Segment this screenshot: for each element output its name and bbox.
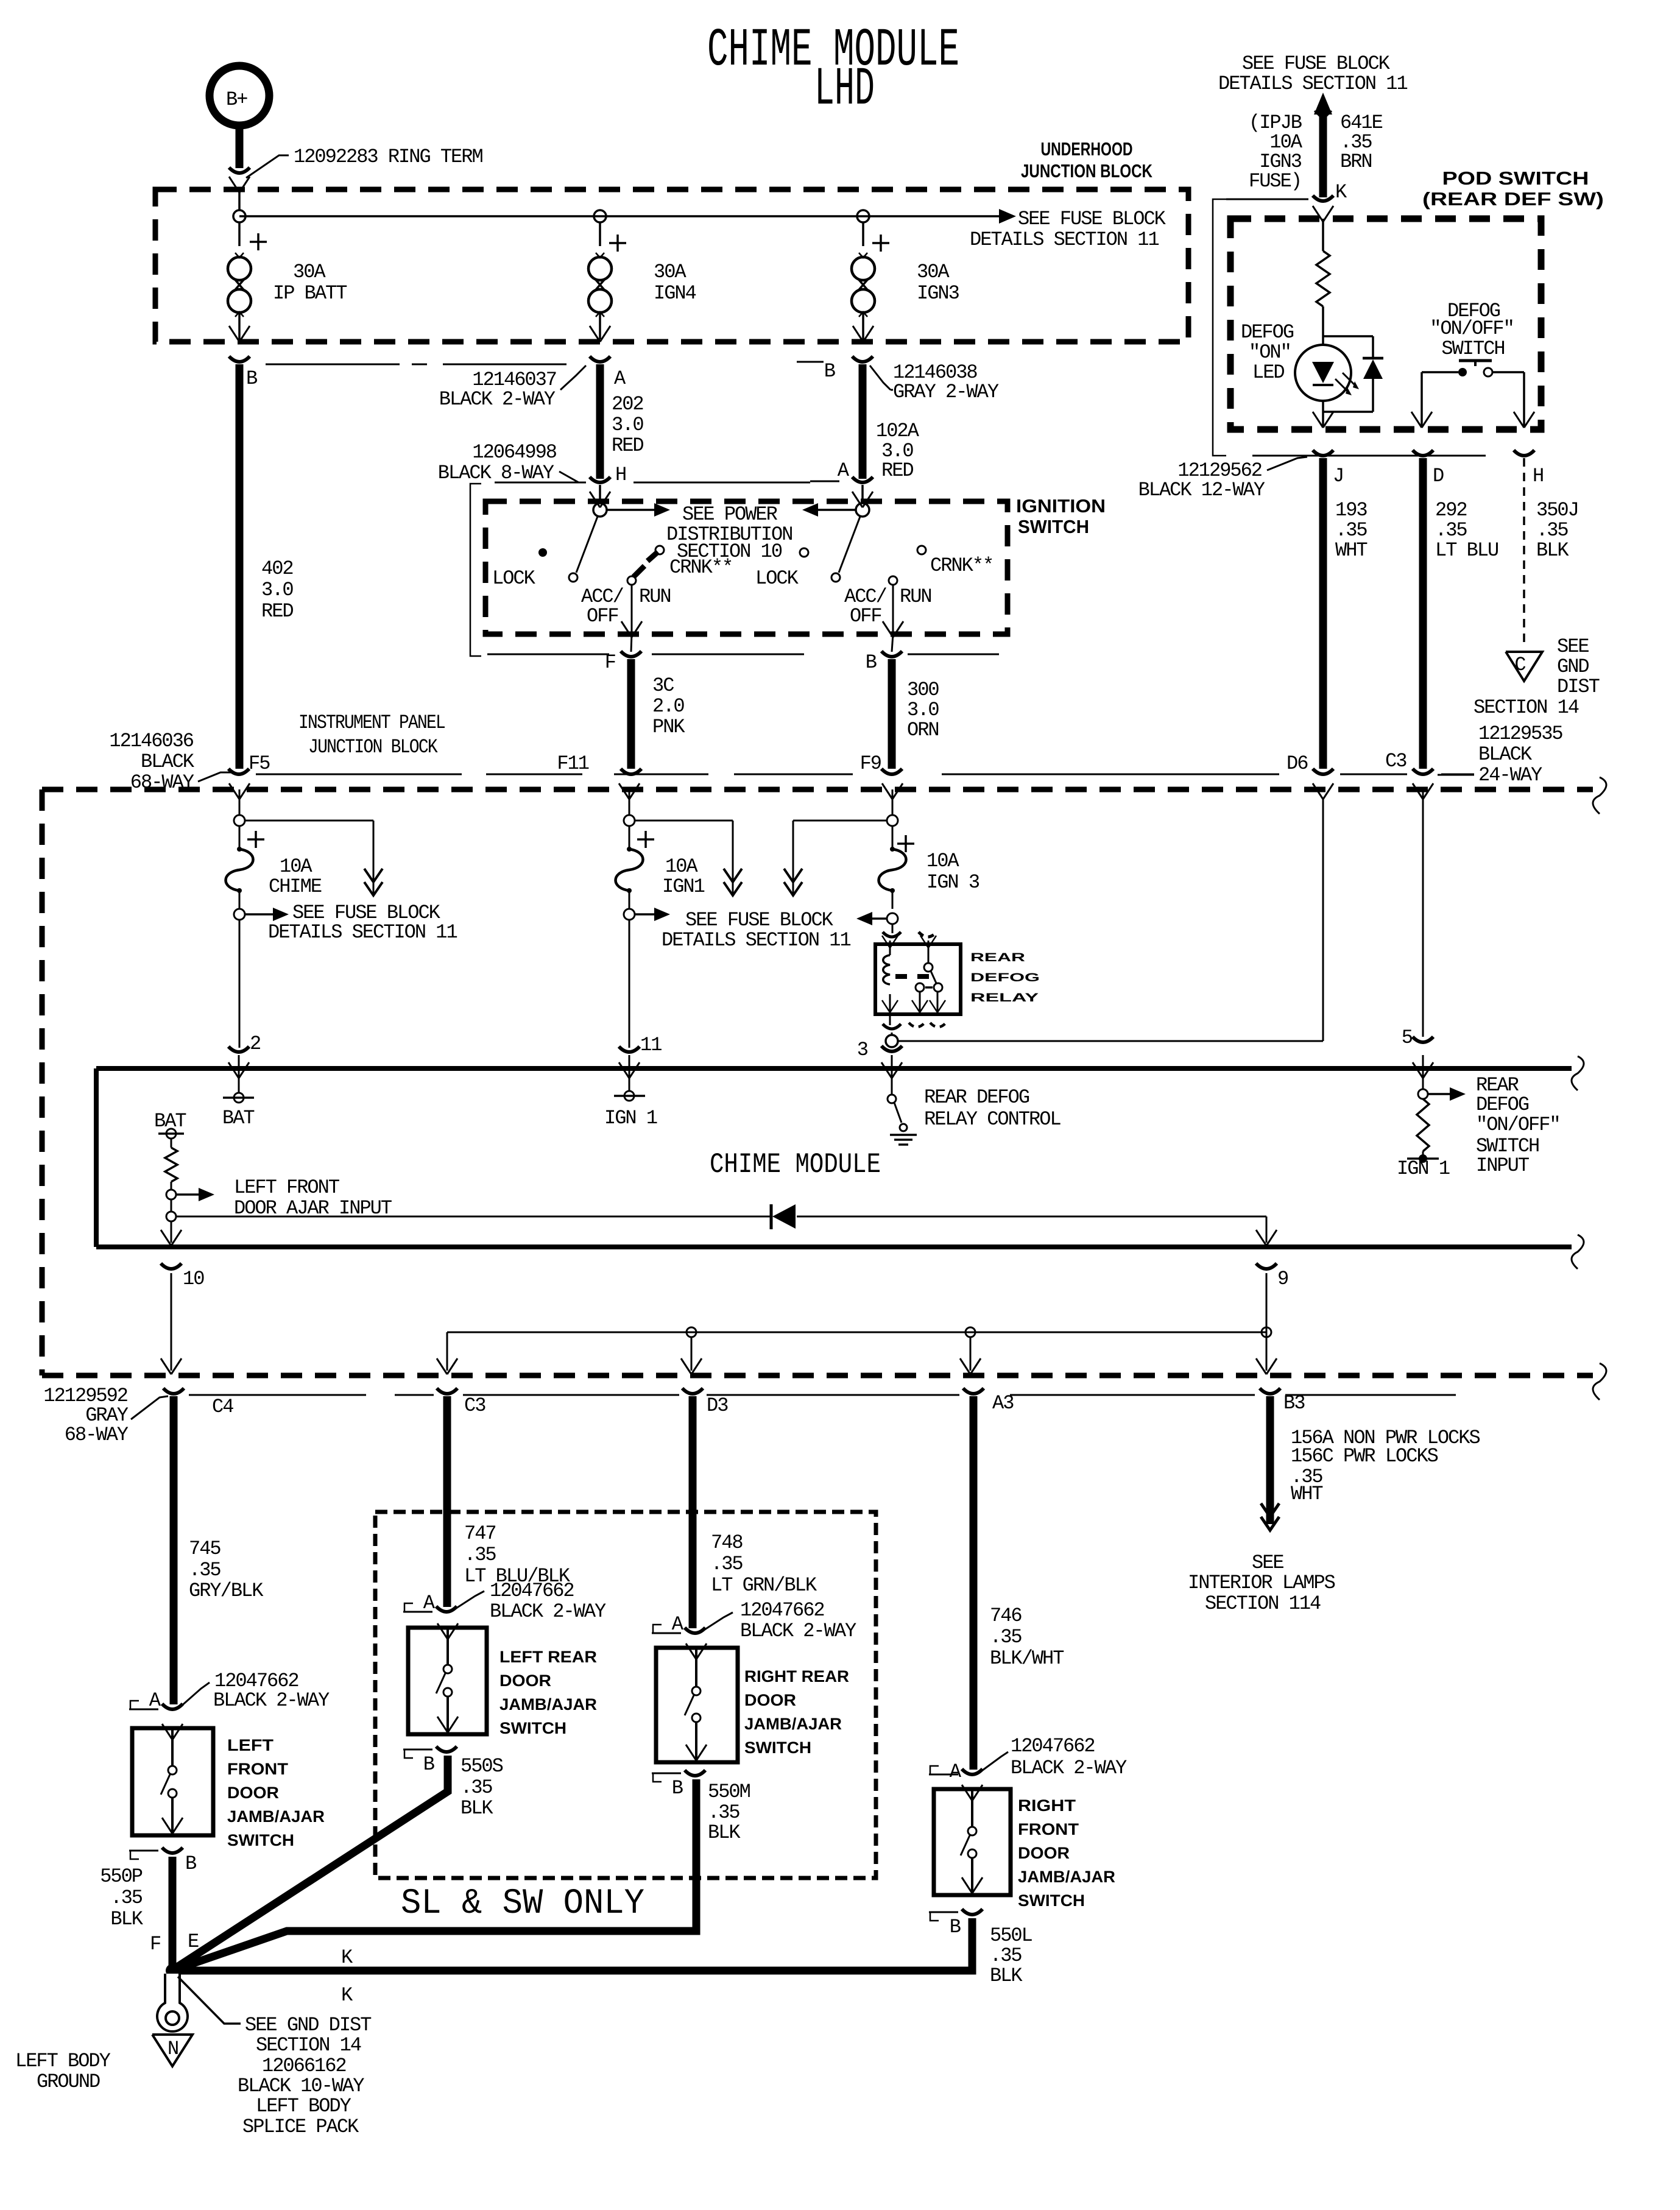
svg-text:F5: F5	[249, 752, 270, 775]
connector A3	[963, 1388, 1014, 1414]
label RIGHT REAR DOOR JAMB/AJAR SWITCH	[744, 1667, 849, 1757]
svg-text:RIGHT REAR: RIGHT REAR	[744, 1667, 849, 1686]
wire F11 into IP	[619, 783, 640, 815]
ground triangle N	[152, 2035, 192, 2066]
fuse 30A IGN3	[852, 222, 959, 342]
label see interior lamps	[1188, 1552, 1335, 1615]
pushbutton defog switch	[1458, 361, 1492, 376]
svg-text:193: 193	[1335, 499, 1367, 521]
fuse 10A IGN1	[616, 826, 705, 909]
wire 350J .35 BLK (dashed)	[1524, 458, 1578, 648]
svg-text:SECTION 14: SECTION 14	[1474, 696, 1579, 719]
connector pin 10	[161, 1263, 204, 1290]
connector pin 3	[857, 1039, 902, 1061]
svg-text:SWITCH: SWITCH	[1441, 337, 1504, 360]
right rear door switch contacts	[685, 1643, 707, 1762]
label CHIME MODULE	[710, 1149, 881, 1181]
svg-text:SECTION 114: SECTION 114	[1205, 1592, 1321, 1615]
instrument panel junction block box	[42, 777, 1606, 1400]
svg-text:BLACK 10-WAY: BLACK 10-WAY	[238, 2075, 364, 2097]
svg-text:30A: 30A	[654, 261, 686, 283]
svg-text:INPUT: INPUT	[1476, 1154, 1529, 1177]
wire pod switch right	[1492, 372, 1534, 428]
pin 11 IGN1 input	[604, 1055, 657, 1129]
svg-text:D3: D3	[707, 1394, 728, 1417]
pin 3 relay control input	[881, 1055, 902, 1123]
wire pin 9 distribution	[437, 1273, 1277, 1374]
svg-text:12066162: 12066162	[262, 2055, 346, 2077]
svg-text:10A: 10A	[926, 850, 959, 872]
wire B+ ring terminal lead	[236, 127, 244, 168]
svg-text:DETAILS SECTION 11: DETAILS SECTION 11	[268, 921, 457, 944]
svg-text:RIGHT: RIGHT	[1018, 1796, 1076, 1815]
svg-text:INTERIOR LAMPS: INTERIOR LAMPS	[1188, 1572, 1335, 1594]
svg-text:RELAY: RELAY	[970, 992, 1039, 1004]
label LOCK 1	[492, 567, 536, 590]
connector F9	[860, 752, 902, 775]
connector F5	[228, 752, 270, 775]
connector H 12064998	[438, 441, 810, 486]
connector F11	[557, 752, 641, 775]
connector B (ignition out)	[866, 651, 999, 674]
svg-text:BLK: BLK	[461, 1797, 493, 1820]
wire A into switch	[852, 485, 873, 507]
label DEFOG ON LED	[1241, 321, 1294, 384]
svg-text:DOOR: DOOR	[1018, 1844, 1070, 1862]
svg-text:.35: .35	[711, 1553, 743, 1575]
left rear door jamb switch box	[408, 1628, 487, 1734]
svg-text:REAR: REAR	[970, 951, 1025, 964]
svg-text:RED: RED	[612, 434, 643, 457]
svg-text:B: B	[866, 651, 877, 674]
svg-text:BLK: BLK	[990, 1965, 1023, 1987]
connector face line (underhood bottom)	[266, 362, 824, 364]
svg-text:10A: 10A	[280, 855, 312, 878]
svg-text:24-WAY: 24-WAY	[1478, 764, 1542, 786]
callout see gnd dist splice pack	[178, 1977, 371, 2138]
connector C3 bottom	[437, 1388, 485, 1417]
svg-text:SECTION 14: SECTION 14	[256, 2034, 361, 2056]
svg-text:SEE GND DIST: SEE GND DIST	[245, 2014, 371, 2036]
svg-text:UNDERHOOD: UNDERHOOD	[1041, 138, 1133, 160]
connector A 12047662 left rear	[403, 1580, 606, 1623]
svg-text:F11: F11	[557, 752, 588, 775]
svg-text:FRONT: FRONT	[1018, 1820, 1079, 1838]
diode chime internal	[771, 1204, 796, 1229]
wire pod switch left	[1411, 372, 1458, 428]
svg-text:A: A	[950, 1760, 962, 1783]
svg-text:2.0: 2.0	[652, 695, 684, 718]
fuse 10A CHIME	[226, 826, 322, 909]
wire F5 into IP	[229, 783, 250, 815]
arrow up to fuse block	[1314, 93, 1332, 119]
svg-text:LOCK: LOCK	[492, 567, 536, 590]
node ign3 fuse top	[887, 815, 914, 852]
svg-text:LEFT FRONT: LEFT FRONT	[234, 1176, 339, 1199]
svg-text:BLACK 12-WAY: BLACK 12-WAY	[1138, 479, 1265, 501]
svg-text:5: 5	[1402, 1026, 1413, 1049]
svg-text:292: 292	[1435, 499, 1467, 521]
contact CRNK 2	[917, 546, 993, 577]
wire ign1 fuse to pin11	[629, 920, 630, 1048]
arrow see fuse block ign3	[856, 912, 887, 925]
svg-text:DEFOG: DEFOG	[1241, 321, 1294, 344]
arrow see fuse block (top)	[970, 208, 1166, 251]
svg-text:BLK: BLK	[708, 1821, 741, 1844]
contact CRNK 1	[655, 546, 732, 579]
node bus junction IP BATT	[233, 210, 245, 222]
svg-text:GRY/BLK: GRY/BLK	[189, 1580, 264, 1602]
svg-text:.35: .35	[1335, 519, 1367, 542]
svg-text:550L: 550L	[990, 1924, 1032, 1947]
connector B (402 RED)	[229, 356, 257, 390]
right rear door jamb switch box	[656, 1648, 738, 1762]
svg-text:RED: RED	[881, 459, 913, 482]
left rear door switch contacts	[436, 1623, 458, 1734]
svg-text:B: B	[672, 1777, 683, 1799]
wire RUN 1 to F	[621, 585, 642, 652]
svg-text:JUNCTION BLOCK: JUNCTION BLOCK	[308, 736, 438, 758]
resistor pod LED dropping	[1316, 251, 1330, 306]
svg-text:DIST: DIST	[1557, 676, 1600, 698]
svg-text:3: 3	[857, 1039, 868, 1061]
node A3 tap	[960, 1327, 981, 1374]
svg-text:D: D	[1433, 465, 1444, 487]
wire 550M .35 BLK	[169, 1779, 750, 1972]
wire 156A/156C to interior lamps	[1261, 1396, 1480, 1530]
svg-text:156C PWR LOCKS: 156C PWR LOCKS	[1291, 1445, 1438, 1467]
svg-text:BLACK 2-WAY: BLACK 2-WAY	[213, 1689, 330, 1712]
svg-text:DEFOG: DEFOG	[970, 972, 1040, 984]
svg-text:.35: .35	[708, 1801, 739, 1824]
svg-text:"ON/OFF": "ON/OFF"	[1430, 317, 1514, 340]
wire pod feed	[1313, 206, 1333, 251]
label LEFT REAR DOOR JAMB/AJAR SWITCH	[499, 1648, 597, 1737]
connector B right rear	[652, 1770, 705, 1799]
node bus junction IGN3	[857, 210, 869, 222]
svg-text:SWITCH: SWITCH	[744, 1739, 811, 1757]
svg-text:GRAY 2-WAY: GRAY 2-WAY	[893, 381, 999, 403]
svg-text:B: B	[950, 1916, 961, 1938]
svg-text:402: 402	[261, 557, 293, 580]
labels ACC OFF RUN 1	[581, 585, 671, 627]
svg-text:CHIME: CHIME	[269, 875, 322, 898]
svg-text:"ON": "ON"	[1249, 341, 1291, 364]
svg-text:N: N	[168, 2038, 178, 2060]
label DEFOG ON/OFF SWITCH	[1430, 300, 1514, 360]
svg-text:3.0: 3.0	[907, 699, 939, 721]
BAT internal branch	[154, 1110, 186, 1199]
label IPJB fuse	[1249, 111, 1303, 192]
svg-text:.35: .35	[990, 1626, 1022, 1648]
label INSTRUMENT PANEL JUNCTION BLOCK	[298, 711, 445, 758]
svg-text:K: K	[1335, 181, 1347, 203]
label REAR DEFOG RELAY CONTROL	[924, 1086, 1061, 1131]
arrow see fuse block chime	[245, 902, 457, 944]
connector B3	[1260, 1388, 1305, 1414]
connector D3	[682, 1388, 728, 1417]
connector B left rear	[403, 1746, 457, 1776]
wire 550L .35 BLK	[169, 1918, 1032, 1987]
connector F (ignition out)	[487, 651, 804, 674]
svg-text:3.0: 3.0	[261, 579, 293, 601]
ring terminal ground	[157, 1974, 188, 2032]
relay switch	[912, 936, 945, 1012]
svg-text:IP BATT: IP BATT	[273, 282, 347, 305]
svg-text:IGN3: IGN3	[917, 282, 959, 305]
label LOCK 2	[755, 567, 799, 590]
wire 550P .35 BLK	[100, 1857, 172, 1968]
connector relay pin 1	[883, 932, 937, 937]
svg-text:BLK: BLK	[110, 1908, 143, 1930]
right front door jamb switch box	[934, 1789, 1011, 1895]
svg-text:SWITCH: SWITCH	[1018, 516, 1089, 537]
svg-text:12047662: 12047662	[490, 1580, 574, 1602]
relay link dashes	[895, 974, 929, 979]
svg-text:.35: .35	[110, 1887, 142, 1909]
left front door switch contacts	[161, 1724, 183, 1835]
connector pin 11	[619, 1034, 662, 1056]
svg-text:PNK: PNK	[652, 716, 685, 738]
svg-text:BLACK 2-WAY: BLACK 2-WAY	[1011, 1757, 1127, 1779]
relay coil	[882, 936, 898, 1012]
svg-text:LT GRN/BLK: LT GRN/BLK	[711, 1574, 817, 1597]
ignition switch box	[485, 501, 1008, 634]
svg-text:DEFOG: DEFOG	[1476, 1093, 1529, 1116]
SL & SW ONLY box	[375, 1512, 876, 1878]
wire 292 .35 LT BLU	[1423, 458, 1498, 769]
svg-text:30A: 30A	[917, 261, 950, 283]
fuse 30A IGN4	[588, 222, 696, 342]
wire 193 .35 WHT	[1323, 458, 1367, 769]
connector B 12146038	[824, 356, 999, 403]
svg-text:JAMB/AJAR: JAMB/AJAR	[499, 1695, 597, 1714]
svg-text:102A: 102A	[876, 420, 920, 442]
labels ACC OFF RUN 2	[844, 585, 931, 627]
node chime fuse top	[234, 815, 264, 848]
svg-text:JAMB/AJAR: JAMB/AJAR	[1018, 1868, 1115, 1886]
svg-text:748: 748	[711, 1531, 743, 1554]
svg-text:3C: 3C	[652, 674, 674, 697]
svg-text:B: B	[185, 1852, 196, 1875]
connector A 12047662 left front	[129, 1670, 330, 1712]
wire door ajar internal line	[161, 1199, 1266, 1246]
connector K	[1213, 181, 1347, 456]
svg-text:.35: .35	[1435, 519, 1467, 542]
svg-text:BLACK 2-WAY: BLACK 2-WAY	[439, 388, 556, 411]
svg-text:A: A	[149, 1689, 161, 1712]
wire 747 .35 LT BLU/BLK	[447, 1396, 571, 1607]
svg-text:BRN: BRN	[1340, 150, 1372, 173]
fuse 30A IP BATT	[228, 222, 347, 342]
node ign1 fuse top	[624, 815, 654, 848]
svg-text:IGN 1: IGN 1	[604, 1107, 657, 1129]
svg-text:SEE POWER: SEE POWER	[682, 503, 778, 526]
svg-text:LEFT REAR: LEFT REAR	[499, 1648, 597, 1666]
connector A 12146037	[439, 356, 626, 411]
svg-text:IGN 3: IGN 3	[926, 871, 979, 894]
svg-text:WHT: WHT	[1335, 539, 1367, 562]
wire internal to pin 9	[1256, 1216, 1277, 1246]
svg-text:WHT: WHT	[1291, 1483, 1322, 1505]
svg-text:.35: .35	[464, 1544, 496, 1566]
switch arm LOCK side 1	[538, 517, 598, 582]
svg-text:A: A	[614, 367, 626, 390]
svg-text:FRONT: FRONT	[227, 1760, 289, 1778]
svg-text:LEFT: LEFT	[227, 1736, 274, 1754]
wire H into switch	[590, 485, 610, 507]
wire 300 3.0 ORN	[892, 659, 939, 769]
svg-text:IGNITION: IGNITION	[1016, 495, 1106, 517]
svg-text:B3: B3	[1283, 1392, 1305, 1414]
svg-text:68-WAY: 68-WAY	[65, 1424, 129, 1446]
svg-text:745: 745	[189, 1537, 221, 1560]
svg-text:CRNK**: CRNK**	[669, 556, 732, 579]
connector A 12047662 right front	[929, 1735, 1127, 1783]
labels F E	[150, 1930, 199, 1955]
wire F9 into IP	[882, 783, 903, 815]
svg-text:300: 300	[907, 679, 939, 701]
label IGNITION SWITCH	[1016, 495, 1106, 537]
connector B left front	[129, 1848, 196, 1875]
svg-text:REAR DEFOG: REAR DEFOG	[924, 1086, 1029, 1109]
svg-text:ORN: ORN	[907, 719, 939, 741]
label see fuse block (pod)	[1218, 52, 1407, 95]
node D3 tap	[681, 1327, 702, 1374]
label RIGHT FRONT DOOR JAMB/AJAR SWITCH	[1018, 1796, 1115, 1910]
LED indicator lamp	[1295, 345, 1359, 401]
pin 2 BAT input	[222, 1055, 254, 1129]
svg-text:LOCK: LOCK	[755, 567, 799, 590]
svg-text:IGN1: IGN1	[662, 875, 705, 898]
diode pod (parallel)	[1323, 336, 1383, 412]
svg-text:550P: 550P	[100, 1865, 143, 1888]
svg-text:.35: .35	[990, 1944, 1022, 1967]
connector C4	[163, 1388, 233, 1418]
arrow chime to fuse details	[245, 821, 383, 895]
label LEFT FRONT DOOR JAMB/AJAR SWITCH	[227, 1736, 325, 1849]
svg-text:C3: C3	[1385, 750, 1406, 772]
svg-text:H: H	[615, 464, 626, 486]
svg-text:.35: .35	[1536, 519, 1568, 542]
connector B right front	[929, 1909, 983, 1938]
svg-text:LHD: LHD	[814, 60, 875, 120]
wire 402 3.0 RED	[239, 364, 293, 769]
label K upper	[341, 1946, 353, 1969]
connector face line (IP bottom)	[189, 1394, 1456, 1396]
title CHIME MODULE LHD	[707, 21, 959, 120]
svg-text:12064998: 12064998	[472, 441, 556, 464]
svg-text:RUN: RUN	[639, 585, 671, 608]
svg-text:12129535: 12129535	[1478, 722, 1562, 745]
arrow see power distribution	[607, 503, 792, 563]
svg-text:9: 9	[1277, 1268, 1288, 1290]
connector A 12047662 right rear	[652, 1599, 856, 1642]
connector pin 9	[1256, 1263, 1288, 1290]
wire 3C 2.0 PNK	[631, 659, 685, 769]
svg-text:F: F	[150, 1933, 160, 1955]
svg-text:LED: LED	[1252, 361, 1284, 384]
svg-text:H: H	[1533, 465, 1543, 487]
svg-text:"ON/OFF": "ON/OFF"	[1476, 1114, 1560, 1136]
svg-text:202: 202	[612, 393, 643, 415]
svg-text:INSTRUMENT PANEL: INSTRUMENT PANEL	[298, 711, 445, 734]
wire LED to pod bottom	[1313, 401, 1333, 428]
connector face line (IP top)	[256, 774, 1474, 775]
svg-text:A: A	[672, 1613, 684, 1636]
connector pin 5	[1402, 1026, 1433, 1049]
svg-text:2: 2	[250, 1033, 260, 1055]
svg-text:A3: A3	[992, 1392, 1014, 1414]
node left body ground junction	[166, 1964, 179, 1977]
connector 12146036 BLACK 68-WAY	[109, 730, 231, 794]
node ignition pivot 1	[593, 503, 607, 517]
connector face line (pod bottom)	[1252, 455, 1486, 457]
svg-text:SWITCH: SWITCH	[499, 1719, 566, 1737]
arrow see fuse block ign1	[635, 908, 850, 951]
svg-text:GND: GND	[1557, 655, 1589, 678]
rear defog relay box	[875, 944, 961, 1014]
svg-text:(REAR DEF SW): (REAR DEF SW)	[1422, 188, 1604, 210]
arrow ign3 to fuse details	[784, 821, 887, 895]
svg-text:B: B	[246, 367, 257, 390]
wire RUN 2 to B	[883, 576, 903, 652]
svg-text:12047662: 12047662	[740, 1599, 824, 1622]
ground symbol C see gnd dist	[1474, 635, 1600, 719]
connector C3 top	[1413, 769, 1433, 774]
wire 745 .35 GRY/BLK	[174, 1396, 264, 1704]
svg-text:A: A	[423, 1592, 436, 1614]
svg-text:DOOR: DOOR	[499, 1672, 551, 1690]
labels D6 C3	[1286, 750, 1406, 775]
svg-text:LEFT BODY: LEFT BODY	[256, 2095, 351, 2117]
wire resistor to LED	[1322, 306, 1324, 345]
bracket ignition connector group	[470, 484, 481, 656]
arrow see power distribution 2	[802, 503, 856, 517]
wire pin 10 to C4	[161, 1273, 182, 1374]
svg-text:SEE FUSE BLOCK: SEE FUSE BLOCK	[1242, 52, 1391, 75]
svg-text:B: B	[824, 360, 835, 383]
svg-text:C: C	[1514, 654, 1525, 676]
svg-text:DOOR: DOOR	[227, 1784, 279, 1802]
switch arm LOCK side 2	[800, 517, 860, 582]
relay bottom connectors	[883, 1014, 946, 1029]
underhood junction block box	[155, 189, 1188, 342]
node B3 tap	[1262, 1327, 1271, 1337]
svg-text:747: 747	[464, 1522, 496, 1545]
svg-text:68-WAY: 68-WAY	[130, 771, 194, 794]
svg-text:SEE: SEE	[1557, 635, 1589, 658]
svg-text:POD SWITCH: POD SWITCH	[1442, 168, 1589, 189]
label K lower	[341, 1984, 353, 2007]
label POD SWITCH (REAR DEF SW)	[1422, 168, 1604, 210]
right front door switch contacts	[961, 1785, 983, 1895]
svg-text:JUNCTION BLOCK: JUNCTION BLOCK	[1021, 160, 1152, 182]
wire ign3 to relay	[892, 924, 894, 933]
node relay control junction	[886, 1033, 898, 1048]
svg-text:BLACK: BLACK	[1478, 743, 1533, 766]
svg-text:IGN 1: IGN 1	[1397, 1157, 1450, 1180]
svg-text:DETAILS SECTION 11: DETAILS SECTION 11	[970, 228, 1159, 251]
wire 746 .35 BLK/WHT	[973, 1396, 1064, 1770]
wire 748 .35 LT GRN/BLK	[693, 1396, 817, 1628]
wire 102A 3.0 RED	[863, 364, 920, 482]
wire 641E .35 BRN	[1323, 111, 1383, 197]
svg-text:SL & SW ONLY: SL & SW ONLY	[401, 1884, 644, 1924]
label LEFT BODY GROUND	[15, 2050, 111, 2093]
svg-text:JAMB/AJAR: JAMB/AJAR	[744, 1715, 842, 1733]
wire 550S .35 BLK	[169, 1755, 503, 1972]
